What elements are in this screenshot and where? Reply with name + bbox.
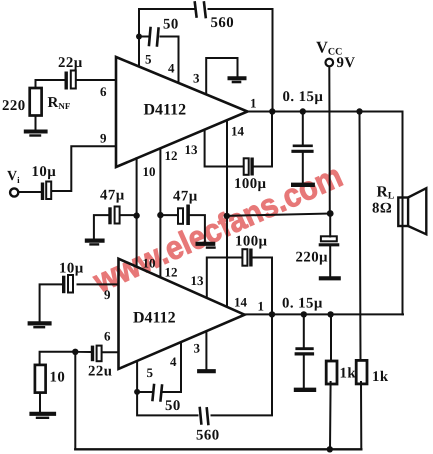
resistor 1k (right) [360, 112, 362, 450]
svg-text:47µ: 47µ [173, 189, 198, 205]
wire: pin10 rail [136, 158, 138, 266]
wire: pin14 rail (U1 to U2) [226, 120, 228, 306]
wire: pin4 drop [178, 37, 180, 83]
node: pin6 bottom junction [72, 349, 78, 355]
svg-text:220: 220 [2, 98, 26, 114]
svg-text:100µ: 100µ [234, 176, 267, 192]
node: 1k L junction [327, 311, 333, 317]
ground (pin3 bottom) [199, 369, 214, 373]
node: 0.15µ junction top [300, 108, 306, 114]
ground (220µ) [321, 276, 339, 280]
svg-text:9: 9 [100, 131, 107, 146]
capacitor 0.15µ (top) [302, 112, 304, 184]
node: rail 1k junction [327, 446, 333, 452]
svg-text:RL: RL [377, 184, 395, 202]
node: junction pin5 top [136, 34, 142, 40]
capacitor 47µ (right) [160, 215, 205, 242]
svg-text:50: 50 [163, 17, 179, 33]
op-amp U2 D4112 (bottom) [119, 259, 245, 369]
wire: pin13 bottom + 100µ to output (lower) [207, 258, 272, 315]
wire: output bus (top) [248, 111, 403, 113]
resistor RNF 220 [35, 80, 37, 130]
svg-text:14: 14 [231, 124, 245, 139]
svg-text:6: 6 [100, 84, 107, 99]
wire: bottom feedback wire + 560 [137, 314, 272, 415]
svg-text:47µ: 47µ [100, 188, 125, 204]
wire: bottom rail [75, 448, 361, 450]
svg-text:1: 1 [250, 96, 257, 111]
svg-text:1k: 1k [372, 369, 389, 385]
wire: output bus (bottom) [245, 313, 403, 315]
svg-text:10µ: 10µ [32, 164, 57, 180]
svg-text:100µ: 100µ [235, 234, 268, 250]
svg-text:14: 14 [234, 295, 248, 310]
svg-text:1: 1 [258, 299, 265, 314]
ground (0.15µ bottom) [296, 388, 314, 392]
wire: top feedback wire A [139, 9, 273, 112]
wire: speaker feed [402, 112, 404, 315]
capacitor 22u (bottom) + pin6 node [40, 352, 119, 365]
svg-text:5: 5 [145, 52, 152, 67]
node: Vcc/220µ junction [327, 210, 334, 217]
svg-text:22µ: 22µ [58, 55, 83, 71]
ground (pin3 top) [230, 76, 245, 80]
svg-text:0. 15µ: 0. 15µ [282, 296, 323, 312]
svg-text:RNF: RNF [48, 95, 71, 111]
watermark www.elecfans.com [87, 157, 348, 300]
wire: pin5 drop [138, 37, 140, 67]
svg-text:D4112: D4112 [133, 310, 176, 327]
capacitor 560 (top) [195, 3, 206, 18]
svg-text:10: 10 [50, 370, 66, 386]
svg-text:50: 50 [165, 398, 181, 414]
svg-text:Vi: Vi [7, 169, 20, 185]
wire: pin12 rail [159, 149, 161, 278]
svg-text:220µ: 220µ [296, 250, 329, 266]
svg-text:560: 560 [211, 15, 235, 31]
svg-text:5: 5 [147, 365, 154, 380]
ground (10 resistor) [32, 412, 55, 416]
svg-text:10µ: 10µ [59, 261, 84, 277]
wire: Vcc to pin14 rail [227, 214, 330, 216]
svg-text:3: 3 [193, 71, 200, 86]
node: pin1 junction [269, 108, 275, 114]
op-amp U1 D4112 (top) [116, 57, 248, 167]
capacitor 100µ (top) [244, 158, 249, 175]
capacitor 220µ [329, 214, 331, 278]
svg-text:4: 4 [170, 354, 177, 369]
svg-text:0. 15µ: 0. 15µ [283, 89, 324, 105]
node: 47µ L junction [133, 212, 139, 218]
svg-text:13: 13 [191, 273, 205, 288]
capacitor 47µ (left) [94, 215, 137, 238]
capacitor 100µ (bottom) [242, 249, 247, 266]
node: junction 560/100µ bottom [269, 311, 275, 317]
wire: pin13 top + 100µ to output [205, 112, 272, 167]
speaker RL 8Ω [398, 198, 408, 227]
svg-text:www.elecfans.com: www.elecfans.com [87, 157, 348, 300]
wire: pin9 input path [52, 146, 117, 191]
capacitor 50 (bottom) [137, 342, 181, 392]
svg-text:1k: 1k [340, 366, 357, 382]
svg-text:12: 12 [165, 148, 178, 163]
ground (47µ R) [198, 242, 214, 246]
capacitor 0.15µ (bottom) [303, 314, 305, 387]
node: junction pin5 bottom [134, 389, 140, 395]
resistor 10 [35, 365, 46, 393]
wire: Vcc rail down [328, 67, 331, 214]
terminal Vi [10, 188, 18, 196]
node: 47µ R junction [157, 212, 163, 218]
ground (0.15µ top) [293, 183, 313, 187]
wire: pin3 to ground (top) [206, 58, 237, 94]
ground (RNF) [26, 130, 46, 134]
wire: feedback rail to bottom [74, 352, 76, 450]
svg-text:560: 560 [196, 428, 220, 444]
terminal Vcc 9V [326, 59, 334, 67]
svg-text:8Ω: 8Ω [372, 201, 392, 217]
ground (10µ bottom) [30, 321, 50, 325]
ground (47µ L) [87, 239, 103, 243]
svg-text:6: 6 [104, 329, 111, 344]
capacitor 560 (bottom) [200, 408, 209, 424]
node: 1k feed junction [356, 108, 362, 114]
svg-text:D4112: D4112 [144, 102, 187, 119]
svg-text:10: 10 [143, 164, 156, 179]
svg-text:9V: 9V [337, 55, 356, 71]
svg-text:13: 13 [185, 142, 199, 157]
capacitor 50 (top) [139, 36, 179, 38]
wire: pin3 bottom ground [205, 333, 207, 369]
resistor 1k (left) [330, 314, 331, 449]
svg-text:9: 9 [104, 287, 111, 302]
capacitor 10µ (bottom) [40, 284, 119, 321]
capacitor 10µ (top input) [41, 183, 44, 201]
svg-text:4: 4 [168, 61, 175, 76]
svg-text:12: 12 [165, 265, 178, 280]
node: pin14 rail junction [224, 213, 230, 219]
svg-text:10: 10 [143, 256, 156, 271]
svg-text:3: 3 [194, 341, 201, 356]
svg-text:22u: 22u [88, 364, 112, 380]
capacitor 22µ (top) [36, 79, 117, 81]
wire: pin5 bottom drop [136, 361, 138, 392]
node: 0.15µ junction bottom [301, 311, 307, 317]
